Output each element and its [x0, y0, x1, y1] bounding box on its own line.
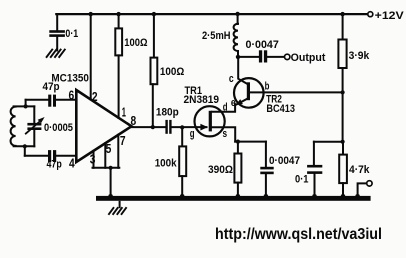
resistor R 100k	[179, 146, 186, 176]
wire 100k tap	[181, 127, 183, 146]
resistor R 4.7k	[339, 155, 347, 184]
wire rail to R 100 ohm #2	[153, 14, 155, 58]
node base-3.9k	[341, 90, 345, 94]
svg-text:4: 4	[69, 156, 75, 170]
wire R1 bottom to pin1	[118, 55, 120, 118]
terminal +12V	[368, 12, 373, 17]
wire 2.5mH to collector node	[237, 51, 239, 57]
svg-text:c: c	[229, 73, 234, 85]
svg-text:0·1: 0·1	[65, 28, 78, 40]
wire source node to 0.0047	[235, 141, 266, 143]
wire top supply rail	[56, 13, 367, 15]
wire pin3	[93, 151, 95, 168]
wire pin2 from rail to amp top edge	[90, 14, 92, 99]
wire 390 tap	[237, 142, 239, 154]
wire 3.9k to base node	[342, 68, 344, 92]
TR1 drain lead	[212, 104, 235, 111]
capacitor 180p	[165, 120, 171, 134]
wire 4.7k to ground bar	[342, 183, 344, 196]
wire 4.7k node left to 0.1	[314, 141, 343, 143]
wire 0.1 to ground bar	[314, 174, 316, 197]
svg-text:6: 6	[69, 88, 75, 102]
TR2 collector lead	[238, 57, 247, 84]
node rail-R2	[152, 12, 156, 16]
node signal-R2	[151, 125, 155, 129]
wire tank top stub	[25, 100, 27, 107]
svg-text:0·0047: 0·0047	[269, 155, 300, 167]
capacitor variable 0.0005 plates	[27, 123, 41, 130]
node rail-R1	[116, 12, 120, 16]
terminal bottom-right	[367, 181, 372, 186]
TR2 base lead to bias node	[250, 91, 342, 93]
wire pin8 output to 180p	[132, 126, 166, 128]
wire rail to 2.5mH	[237, 14, 239, 24]
svg-text:e: e	[231, 97, 236, 109]
node bar 390	[236, 194, 241, 199]
ground bar stub	[119, 201, 121, 208]
wire tank bottom edge	[14, 145, 35, 147]
wire node to 4.7k	[342, 142, 344, 155]
svg-text:+12V: +12V	[375, 10, 405, 22]
op-amp U1 MC1350 triangle	[76, 90, 131, 162]
wire varcap branch bottom	[33, 130, 35, 146]
svg-text:7: 7	[120, 134, 126, 148]
node rail-3.9k	[340, 12, 344, 16]
node rail-pin2	[89, 12, 93, 16]
wire output terminal 2 stub	[358, 183, 367, 196]
svg-text:g: g	[190, 128, 195, 140]
svg-text:100Ω: 100Ω	[124, 37, 147, 49]
node gate-100k	[180, 125, 184, 129]
terminal Output	[285, 54, 290, 59]
TR1 source lead	[212, 127, 235, 141]
wire collector node to 0.0047 out	[238, 56, 259, 58]
resistor R 3.9k	[338, 40, 346, 69]
svg-text:0·0047: 0·0047	[246, 39, 279, 51]
capacitor 0.0047 output	[259, 50, 267, 62]
wire 0.0047 bottom to ground bar	[265, 174, 267, 196]
inductor 2.5mH	[234, 24, 238, 51]
wire cap to ground stub	[56, 37, 58, 51]
node bar 4.7k	[341, 194, 346, 199]
svg-text:d: d	[223, 101, 228, 113]
wire 100k to ground bar	[181, 176, 183, 196]
inductor L tank coil	[11, 107, 16, 146]
capacitor 47p top	[48, 95, 56, 107]
wire down to 0.1 cap	[313, 142, 315, 165]
TR1 gate arrowhead	[200, 124, 207, 131]
wire 390 to ground bar	[237, 183, 239, 197]
svg-text:5: 5	[106, 142, 112, 156]
svg-text:3: 3	[90, 153, 96, 167]
svg-text:3·9k: 3·9k	[349, 50, 370, 62]
svg-text:0·1: 0·1	[295, 174, 309, 186]
capacitor 0.1 (top-left decoupling)	[49, 30, 65, 37]
wire pin4 input line with 47p	[25, 155, 48, 157]
svg-text:180p: 180p	[156, 107, 179, 119]
capacitor 0.0047 bottom	[260, 167, 273, 174]
ground (top-left hatch)	[47, 50, 65, 57]
svg-text:http://www.qsl.net/va3iul: http://www.qsl.net/va3iul	[215, 226, 382, 243]
wire R2 bottom to signal node	[152, 84, 154, 127]
node tank top	[24, 104, 28, 108]
svg-text:2: 2	[92, 90, 98, 104]
wire base node down to 4.7k node	[342, 92, 344, 141]
svg-text:8: 8	[131, 114, 137, 128]
node bar 0.0047	[264, 194, 269, 199]
svg-text:47p: 47p	[43, 81, 60, 93]
resistor R 100 ohm #2	[151, 58, 158, 85]
transistor Q2 TR2 BC413 body	[234, 78, 264, 108]
capacitor 0.1 bottom-right	[307, 165, 322, 174]
wire rail to R 100 ohm #1	[118, 14, 120, 29]
ground (bottom hatch)	[108, 207, 126, 215]
node 4.7k top	[341, 140, 345, 144]
TR2 base bar	[247, 82, 250, 100]
node rail-2.5mH	[235, 12, 239, 16]
svg-text:1: 1	[122, 105, 126, 119]
wire rail drop to C decoupling	[56, 14, 58, 30]
svg-text:b: b	[265, 80, 270, 92]
wire rail to 3.9k	[342, 14, 344, 39]
resistor R 100 ohm #1	[115, 28, 122, 55]
svg-text:100Ω: 100Ω	[160, 66, 185, 78]
node collector-2.5mH	[236, 55, 240, 59]
wire varcap branch top	[33, 106, 35, 123]
variable capacitor arrow	[26, 117, 45, 134]
node bus 3-5-7	[109, 166, 113, 170]
wire pin bus 3-5-7	[93, 167, 120, 169]
svg-text:2·5mH: 2·5mH	[202, 30, 231, 42]
node bar terminal	[355, 194, 360, 199]
wire 0.0047 to output terminal	[267, 56, 284, 58]
wire pin7	[117, 135, 119, 168]
wire tank top edge	[14, 105, 35, 107]
wire bus to ground bar	[110, 168, 112, 197]
wire to cap 0.0047 bottom	[265, 142, 267, 167]
node tank bottom	[23, 144, 27, 148]
svg-text:0·0005: 0·0005	[44, 122, 73, 134]
transistor Q1 TR1 2N3819 body	[195, 106, 225, 136]
svg-text:47p: 47p	[47, 159, 63, 171]
TR1 channel bar	[209, 111, 212, 132]
svg-text:390Ω: 390Ω	[208, 164, 233, 176]
svg-text:100k: 100k	[155, 157, 178, 169]
capacitor 47p bottom	[48, 150, 56, 162]
node bar 100k	[180, 194, 185, 199]
wire 180p to TR1 gate	[172, 126, 207, 128]
wire pin5	[104, 143, 106, 168]
node bar 0.1	[312, 194, 317, 199]
svg-text:Output: Output	[291, 52, 326, 64]
svg-text:2N3819: 2N3819	[184, 94, 220, 106]
node source-390	[236, 140, 240, 144]
TR2 emitter arrowhead	[236, 99, 243, 105]
ground bus bar	[96, 196, 371, 201]
wire tank bottom stub	[24, 146, 26, 155]
svg-text:BC413: BC413	[266, 103, 295, 115]
wire pin6 input line with 47p	[26, 99, 49, 101]
svg-text:s: s	[223, 128, 228, 140]
TR2 emitter lead	[235, 99, 247, 105]
resistor R 390 ohm	[234, 154, 241, 183]
svg-text:4·7k: 4·7k	[349, 164, 370, 176]
node bar 3-5-7	[108, 194, 113, 199]
